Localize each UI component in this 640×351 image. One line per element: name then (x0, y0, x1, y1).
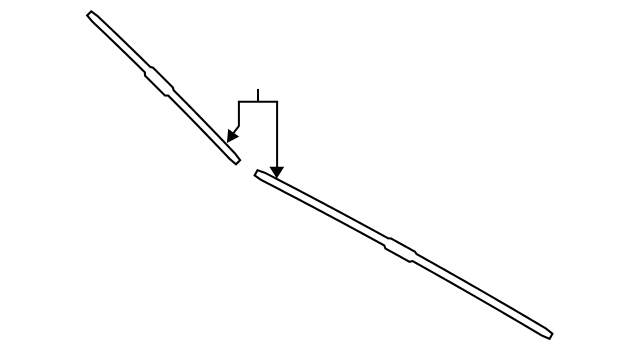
leader line to upper rod (233, 102, 239, 133)
callout bracket with label tick (239, 90, 277, 102)
arrowhead to upper rod (228, 130, 239, 142)
leader line to lower rod (276, 102, 278, 168)
arrowhead to lower rod (270, 167, 283, 177)
upper rod (part with collar sleeve) (86, 9, 243, 166)
lower rod (part with collar sleeve) (254, 166, 555, 340)
